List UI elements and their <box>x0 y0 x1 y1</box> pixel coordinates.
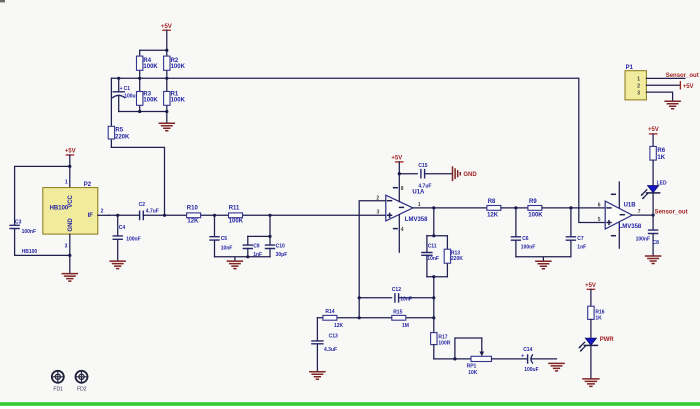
svg-text:R10: R10 <box>187 206 199 212</box>
wire (bypass loop bottom) <box>15 229 70 256</box>
capacitor C3 <box>10 220 36 236</box>
wire (C9/C10 top rail) <box>248 215 270 236</box>
resistor R11 <box>229 206 244 225</box>
corner mark <box>0 0 5 2</box>
svg-text:C3: C3 <box>15 220 22 226</box>
wire (U1A output) <box>413 207 487 209</box>
svg-text:GND: GND <box>68 218 74 232</box>
ground (HB100) <box>62 274 77 282</box>
resistor R8 <box>487 199 501 218</box>
ground (PWR) <box>583 379 599 387</box>
+5V supply (HB100) <box>65 149 76 188</box>
svg-text:+5V: +5V <box>683 84 694 90</box>
wire (feedback mid vertical) <box>433 277 435 333</box>
LED PWR <box>578 337 614 378</box>
junction <box>432 275 435 278</box>
ground (P1) <box>665 101 680 109</box>
wire (C11/R13 bottom rail) <box>427 276 448 278</box>
resistor R13 <box>444 236 463 277</box>
svg-text:7: 7 <box>638 209 641 215</box>
junction <box>163 214 166 217</box>
fiducial FD1 <box>51 370 65 392</box>
svg-text:100uF: 100uF <box>524 367 538 373</box>
svg-text:4.3uF: 4.3uF <box>324 347 337 353</box>
svg-text:C13: C13 <box>329 334 338 340</box>
svg-text:100nF: 100nF <box>636 237 650 243</box>
svg-text:HB100: HB100 <box>22 249 38 255</box>
wire (C11/R13 top rail) <box>427 235 448 237</box>
svg-text:R5: R5 <box>115 127 123 133</box>
capacitor C8 <box>636 215 660 256</box>
svg-text:1: 1 <box>65 180 68 186</box>
svg-text:100K: 100K <box>171 64 186 70</box>
svg-text:4: 4 <box>401 227 404 233</box>
svg-text:6: 6 <box>598 202 601 208</box>
connector P1 <box>625 65 685 101</box>
resistor R15 <box>359 310 434 329</box>
svg-text:2: 2 <box>637 83 640 89</box>
svg-text:1K: 1K <box>595 316 602 322</box>
junction <box>652 214 655 217</box>
+5V supply (bias divider) <box>161 24 172 56</box>
svg-text:P2: P2 <box>84 182 92 188</box>
svg-text:LED: LED <box>657 180 667 186</box>
svg-text:C5: C5 <box>221 236 228 242</box>
svg-text:VCC: VCC <box>68 194 74 207</box>
svg-text:3: 3 <box>637 90 640 96</box>
junction <box>165 77 168 80</box>
svg-text:220K: 220K <box>451 256 463 262</box>
svg-text:PWR: PWR <box>600 337 615 343</box>
resistor R2 <box>164 56 186 78</box>
svg-text:4.7uF: 4.7uF <box>418 183 431 189</box>
resistor R16 <box>588 306 605 338</box>
svg-text:R16: R16 <box>595 309 604 315</box>
capacitor C4 <box>113 215 140 260</box>
svg-text:3: 3 <box>377 210 380 216</box>
svg-text:C14: C14 <box>523 347 532 353</box>
svg-text:R15: R15 <box>393 310 402 316</box>
svg-text:HB100: HB100 <box>50 206 69 212</box>
svg-text:+: + <box>120 86 123 92</box>
LED D1 (signal) <box>641 180 667 215</box>
wire (R17 to RP1 row) <box>434 358 471 360</box>
svg-text:R6: R6 <box>657 148 665 154</box>
svg-text:GND: GND <box>463 172 477 178</box>
resistor R9 <box>528 199 543 218</box>
svg-text:Sensor_out: Sensor_out <box>666 73 699 79</box>
wire (bypass loop top) <box>15 166 70 225</box>
svg-text:R9: R9 <box>529 199 537 205</box>
svg-text:C8: C8 <box>653 240 660 246</box>
capacitor C14 <box>521 347 556 373</box>
junction <box>358 296 361 299</box>
+5V supply (R6) <box>648 127 659 146</box>
svg-text:C11: C11 <box>428 243 437 249</box>
svg-text:1K: 1K <box>657 155 665 161</box>
capacitor C2 <box>139 202 159 219</box>
svg-text:100K: 100K <box>143 64 158 70</box>
capacitor C7 <box>566 208 586 257</box>
svg-text:P1: P1 <box>626 65 634 71</box>
green footer bar <box>0 402 700 406</box>
capacitor C5 <box>210 215 232 256</box>
svg-text:10nF: 10nF <box>400 297 412 303</box>
capacitor C10 <box>266 236 288 258</box>
svg-text:C2: C2 <box>139 202 146 208</box>
junction <box>268 235 271 238</box>
svg-text:10nF: 10nF <box>221 245 233 251</box>
resistor R6 <box>650 146 666 185</box>
svg-text:C1: C1 <box>124 86 131 92</box>
svg-text:5: 5 <box>598 217 601 223</box>
junction <box>514 206 517 209</box>
svg-text:U1A: U1A <box>412 190 425 196</box>
svg-text:2: 2 <box>101 209 104 215</box>
svg-text:8: 8 <box>401 186 404 192</box>
svg-text:100R: 100R <box>438 341 450 347</box>
svg-text:+5V: +5V <box>585 283 596 289</box>
resistor R1 <box>164 78 186 111</box>
wire <box>542 207 605 209</box>
wire (filter ground rail) <box>215 257 271 261</box>
svg-text:100K: 100K <box>143 97 158 103</box>
svg-text:C7: C7 <box>577 236 584 242</box>
junction <box>165 49 168 52</box>
resistor R10 <box>187 206 201 225</box>
op-amp U1A <box>376 174 428 253</box>
svg-text:C4: C4 <box>119 225 126 231</box>
fiducial FD2 <box>75 370 89 392</box>
capacitor C9 <box>243 236 262 258</box>
junction <box>398 172 401 175</box>
junction <box>213 214 216 217</box>
svg-text:100nF: 100nF <box>126 237 140 243</box>
wire <box>492 358 528 360</box>
svg-text:10nF: 10nF <box>427 256 439 262</box>
wire (R5 to signal node) <box>111 147 164 215</box>
svg-text:100nF: 100nF <box>22 229 36 235</box>
svg-text:1nF: 1nF <box>577 245 586 251</box>
svg-text:C12: C12 <box>392 287 401 293</box>
svg-text:10K: 10K <box>468 370 478 376</box>
resistor R5 <box>108 78 130 147</box>
svg-text:LMV358: LMV358 <box>619 224 642 230</box>
ground (C4) <box>110 261 125 269</box>
svg-text:+5V: +5V <box>161 24 172 30</box>
svg-text:1M: 1M <box>402 323 409 329</box>
ground (C6/C7) <box>536 261 551 269</box>
wire (U1B out) <box>632 214 653 216</box>
+5V supply (U1A) <box>391 155 403 173</box>
ground GND (C15) <box>453 167 478 180</box>
ground (divider) <box>159 112 174 131</box>
svg-text:4.7uF: 4.7uF <box>146 208 159 214</box>
junction <box>268 214 271 217</box>
capacitor C11 <box>422 236 439 277</box>
junction <box>246 255 249 258</box>
svg-text:100K: 100K <box>171 97 186 103</box>
junction <box>138 110 141 113</box>
svg-text:R8: R8 <box>488 199 496 205</box>
+5V supply (P1) <box>680 81 693 90</box>
svg-text:12K: 12K <box>187 218 199 224</box>
wire (divider node to U1B +input) <box>111 78 605 222</box>
junction <box>432 296 435 299</box>
resistor R4 <box>137 50 159 78</box>
junction <box>68 254 71 257</box>
wire (signal row) <box>109 214 386 216</box>
junction <box>432 316 435 319</box>
svg-text:R17: R17 <box>438 335 447 341</box>
ground (C8) <box>646 256 661 264</box>
svg-text:FD1: FD1 <box>53 386 63 392</box>
wire <box>140 49 167 51</box>
svg-text:12K: 12K <box>487 212 499 218</box>
svg-text:R14: R14 <box>325 309 334 315</box>
ground (filter) <box>227 261 242 269</box>
junction <box>432 206 435 209</box>
ground (C14) <box>549 363 564 371</box>
wire <box>501 207 528 209</box>
svg-text:Sensor_out: Sensor_out <box>655 209 688 215</box>
svg-text:U1B: U1B <box>624 203 637 209</box>
wire <box>119 111 167 113</box>
svg-text:100K: 100K <box>229 218 244 224</box>
module P2 HB100 <box>43 180 109 273</box>
svg-text:RP1: RP1 <box>467 363 477 369</box>
junction <box>138 77 141 80</box>
junction <box>165 110 168 113</box>
resistor R3 <box>137 78 159 111</box>
wire (U1A -in feedback loop) <box>359 201 386 318</box>
svg-text:+5V: +5V <box>648 127 659 133</box>
svg-text:C15: C15 <box>418 163 427 169</box>
junction <box>358 316 361 319</box>
wire (C6-C7 ground rail) <box>516 257 571 261</box>
svg-text:+5V: +5V <box>65 149 76 155</box>
capacitor C15 <box>399 163 452 190</box>
op-amp U1B <box>598 182 642 248</box>
svg-text:FD2: FD2 <box>77 386 87 392</box>
svg-text:R11: R11 <box>229 206 240 212</box>
svg-text:LMV358: LMV358 <box>405 217 428 223</box>
svg-text:220K: 220K <box>115 135 130 141</box>
svg-text:+: + <box>521 353 524 359</box>
svg-text:C10: C10 <box>276 243 285 249</box>
svg-text:C9: C9 <box>253 243 260 249</box>
svg-text:+5V: +5V <box>391 155 402 161</box>
+5V supply (PWR) <box>585 283 596 306</box>
svg-text:IF: IF <box>88 213 94 219</box>
svg-text:3: 3 <box>65 244 68 250</box>
svg-text:1nF: 1nF <box>253 252 262 258</box>
resistor R14 <box>317 309 359 329</box>
junction <box>432 234 435 237</box>
junction <box>569 206 572 209</box>
capacitor C13 <box>312 318 338 372</box>
capacitor C1 <box>113 78 139 111</box>
svg-text:12K: 12K <box>334 323 344 329</box>
wire (output to feedback network) <box>433 208 435 236</box>
resistor R17 <box>431 333 451 359</box>
svg-text:100K: 100K <box>528 212 543 218</box>
ground (C13) <box>310 372 325 380</box>
potentiometer RP1 <box>455 338 492 376</box>
junction <box>116 214 119 217</box>
svg-text:1: 1 <box>637 77 640 83</box>
capacitor C12 <box>359 287 434 303</box>
junction <box>117 77 120 80</box>
svg-text:100nF: 100nF <box>521 245 535 251</box>
junction <box>453 357 456 360</box>
junction <box>68 165 71 168</box>
svg-text:C6: C6 <box>522 236 529 242</box>
svg-text:30pF: 30pF <box>276 252 288 258</box>
capacitor C6 <box>511 208 535 257</box>
